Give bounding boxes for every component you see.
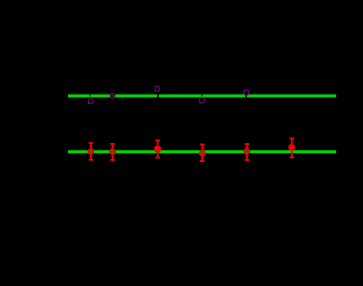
letter D above line 1 at x=157 — [155, 86, 160, 91]
point label circle above line 1 at x=246 — [244, 90, 250, 96]
marker 1 on line 2 at x=90 (tick with point) — [88, 142, 95, 160]
point label circle below line 1 at x=90 — [88, 98, 93, 104]
marker 2 on line 2 at x=112.5 (tick with point) — [109, 143, 116, 161]
tick at x=158 on line 1 — [157, 93, 159, 100]
marker 5 on line 2 at x=247 (tick with point) — [244, 143, 251, 161]
number line 1 (top green line) — [68, 94, 336, 97]
number line 2 (bottom green line) — [68, 150, 336, 153]
tick at x=246 on line 1 — [245, 93, 247, 99]
marker 4 on line 2 at x=202 (tick with point below line) — [199, 144, 206, 162]
open circle point on line 1 at x=112 — [110, 93, 115, 98]
marker 6 on line 2 at x=292 (tick with solid point above line) — [288, 138, 295, 159]
tick at x=90 on line 1 — [89, 94, 90, 97]
tick at x=202 on line 1 — [201, 94, 202, 97]
marker 3 on line 2 at x=157.5 (tick with solid point above line) — [154, 140, 161, 159]
point label circle below line 1 at x=202 — [199, 98, 204, 104]
